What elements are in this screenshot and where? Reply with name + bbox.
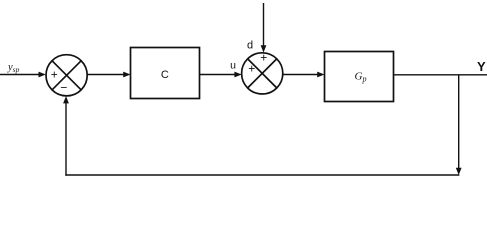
svg-text:−: −: [60, 80, 67, 94]
svg-text:+: +: [51, 68, 58, 82]
feedback wire bottom: [65, 174, 459, 176]
wire Gp to output: [394, 74, 487, 76]
summing junction S2: [242, 53, 283, 94]
S1 cross diagonal 1: [52, 61, 81, 90]
arrowhead into block Gp: [317, 72, 324, 78]
svg-text:ysp: ysp: [7, 62, 20, 74]
feedback wire down right: [458, 75, 460, 170]
S2 cross diagonal 1: [248, 59, 277, 88]
S2 cross diagonal 2: [248, 59, 277, 88]
svg-text:Gp: Gp: [355, 71, 367, 84]
arrowhead into summing junction S1: [39, 72, 46, 78]
arrowhead feedback into S1: [63, 96, 69, 103]
feedback wire up left: [65, 100, 67, 176]
svg-text:d: d: [247, 40, 253, 52]
arrowhead into block C: [123, 72, 130, 78]
svg-text:+: +: [260, 50, 267, 64]
svg-text:Y: Y: [477, 59, 486, 74]
arrowhead d into S2: [261, 45, 267, 52]
block Gp rectangle: [325, 52, 394, 102]
wire setpoint input: [0, 74, 41, 76]
wire S2 to block Gp: [283, 74, 320, 76]
S1 cross diagonal 2: [52, 61, 81, 90]
svg-text:+: +: [248, 61, 255, 75]
arrowhead feedback down: [456, 168, 462, 175]
block C rectangle: [131, 48, 200, 99]
wire C to summing junction S2: [200, 74, 238, 76]
svg-text:C: C: [161, 69, 169, 81]
wire disturbance d: [263, 3, 265, 48]
wire S1 to block C: [87, 74, 126, 76]
summing junction S1: [46, 55, 87, 96]
arrowhead into S2: [234, 72, 241, 78]
svg-text:u: u: [230, 60, 236, 72]
